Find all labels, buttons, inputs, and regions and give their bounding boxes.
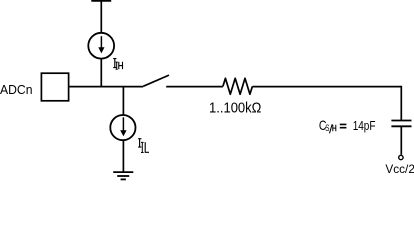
svg-text:ADCn: ADCn xyxy=(0,82,33,97)
label IIL xyxy=(138,139,149,153)
resistor 1..100k xyxy=(223,78,253,94)
label IIH xyxy=(113,59,122,70)
power rail VCC bar xyxy=(91,0,111,2)
wire resistor to capacitor corner xyxy=(252,86,401,88)
wire capacitor to terminal xyxy=(400,126,402,154)
wire corner down to capacitor xyxy=(400,86,402,121)
pin box ADCn xyxy=(41,73,68,101)
current source IIH xyxy=(88,33,114,59)
capacitor CS/H xyxy=(391,121,411,127)
wire IIH to node xyxy=(100,58,102,87)
wire switch to resistor xyxy=(166,86,223,88)
svg-text:Vcc/2: Vcc/2 xyxy=(385,163,414,176)
wire pin to switch xyxy=(70,86,144,88)
wire node down to current source IIL xyxy=(122,87,124,115)
label CS/H = 14pF xyxy=(319,118,376,134)
svg-text:14pF: 14pF xyxy=(353,119,376,133)
wire rail to current source IIH xyxy=(100,0,102,32)
wire IIL to ground xyxy=(122,140,124,172)
current source IIL xyxy=(110,115,135,140)
svg-text:S: S xyxy=(325,123,329,134)
ground xyxy=(113,172,133,179)
open terminal xyxy=(399,155,403,159)
switch (open) xyxy=(143,75,169,86)
svg-text:1..100kΩ: 1..100kΩ xyxy=(209,100,262,116)
